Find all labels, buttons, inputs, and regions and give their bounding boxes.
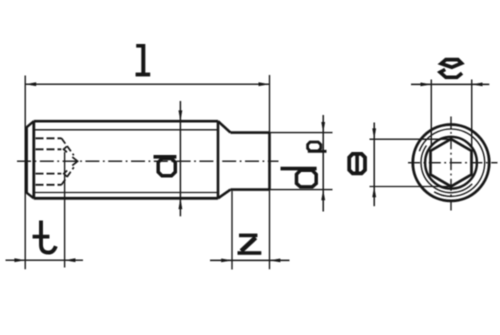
- dimension line z: [210, 259, 290, 261]
- dog point bottom chamfer: [218, 190, 231, 199]
- arrow dp bottom: [321, 190, 325, 201]
- label d rotated: [154, 157, 177, 176]
- arrow t left: [14, 258, 25, 262]
- extension line s right: [471, 80, 473, 147]
- end view vertical centerline: [450, 117, 452, 211]
- arrow z left: [221, 259, 232, 263]
- extension line dp top: [270, 132, 333, 134]
- label e rotated: [349, 152, 365, 175]
- dimension line e: [373, 123, 375, 207]
- extension line s left: [430, 80, 432, 147]
- dimension line s: [411, 83, 489, 85]
- arrow d bottom: [179, 198, 183, 209]
- hidden socket line 4: [36, 184, 62, 186]
- socket chevron upper: [64, 146, 67, 152]
- dimension line t: [6, 259, 84, 261]
- extension line e bottom: [370, 186, 452, 188]
- socket cone lower diagonal: [62, 167, 74, 185]
- dog point top chamfer: [218, 121, 231, 132]
- left bottom chamfer: [26, 193, 33, 199]
- arrow z right: [270, 259, 281, 263]
- arrow s right: [472, 83, 483, 87]
- left top chamfer: [26, 121, 33, 127]
- arrow s left: [421, 83, 432, 87]
- arrow l right: [259, 82, 270, 86]
- dimension line l: [25, 83, 269, 85]
- arrow t right: [65, 258, 76, 262]
- extension line t right: [64, 152, 66, 268]
- thread minor line top: [35, 129, 218, 131]
- socket chevron lower: [64, 171, 67, 177]
- label dp d rotated: [281, 169, 317, 187]
- socket cone tip chevron: [72, 157, 77, 166]
- hidden socket line 1: [36, 137, 62, 139]
- centerline side view: [17, 160, 279, 162]
- arrow e bottom: [372, 187, 376, 198]
- dimension line dp: [322, 115, 324, 212]
- screw left face edge: [25, 127, 28, 193]
- extension line e top: [370, 138, 452, 140]
- extension line dp bottom: [270, 189, 333, 191]
- hexagon socket: [431, 139, 472, 186]
- label z: [238, 234, 262, 255]
- arrow dp top: [321, 122, 325, 133]
- screw body right end edge: [217, 121, 220, 198]
- screw left chamfer edge line: [32, 121, 35, 198]
- socket cone upper diagonal: [62, 138, 74, 155]
- hidden socket line 2: [36, 148, 62, 150]
- dimension line d: [179, 101, 181, 216]
- label t: [33, 221, 56, 253]
- socket entry circle: [425, 137, 477, 189]
- extension line z left: [231, 191, 233, 270]
- arrow l left: [25, 82, 36, 86]
- hidden socket line 3: [36, 173, 62, 175]
- thread minor line bottom: [35, 192, 218, 194]
- end view chamfer thin arc: [419, 129, 484, 196]
- end view outer circle: [413, 125, 489, 201]
- label s: [440, 60, 462, 78]
- screw body outline bottom edge: [34, 197, 218, 200]
- arrow d top: [179, 110, 183, 121]
- screw body outline top edge: [34, 120, 218, 123]
- extension line right (l and z, dog end): [269, 75, 271, 269]
- label l: [136, 44, 151, 76]
- arrow e top: [372, 128, 376, 139]
- extension line left (l and t): [24, 76, 26, 270]
- label dp p subscript rotated: [308, 142, 327, 151]
- dog point end face: [268, 133, 271, 190]
- dog point bottom edge: [231, 188, 270, 191]
- end view horizontal centerline: [408, 162, 498, 164]
- thread minor arc: [421, 145, 472, 192]
- dog point top edge: [231, 131, 270, 134]
